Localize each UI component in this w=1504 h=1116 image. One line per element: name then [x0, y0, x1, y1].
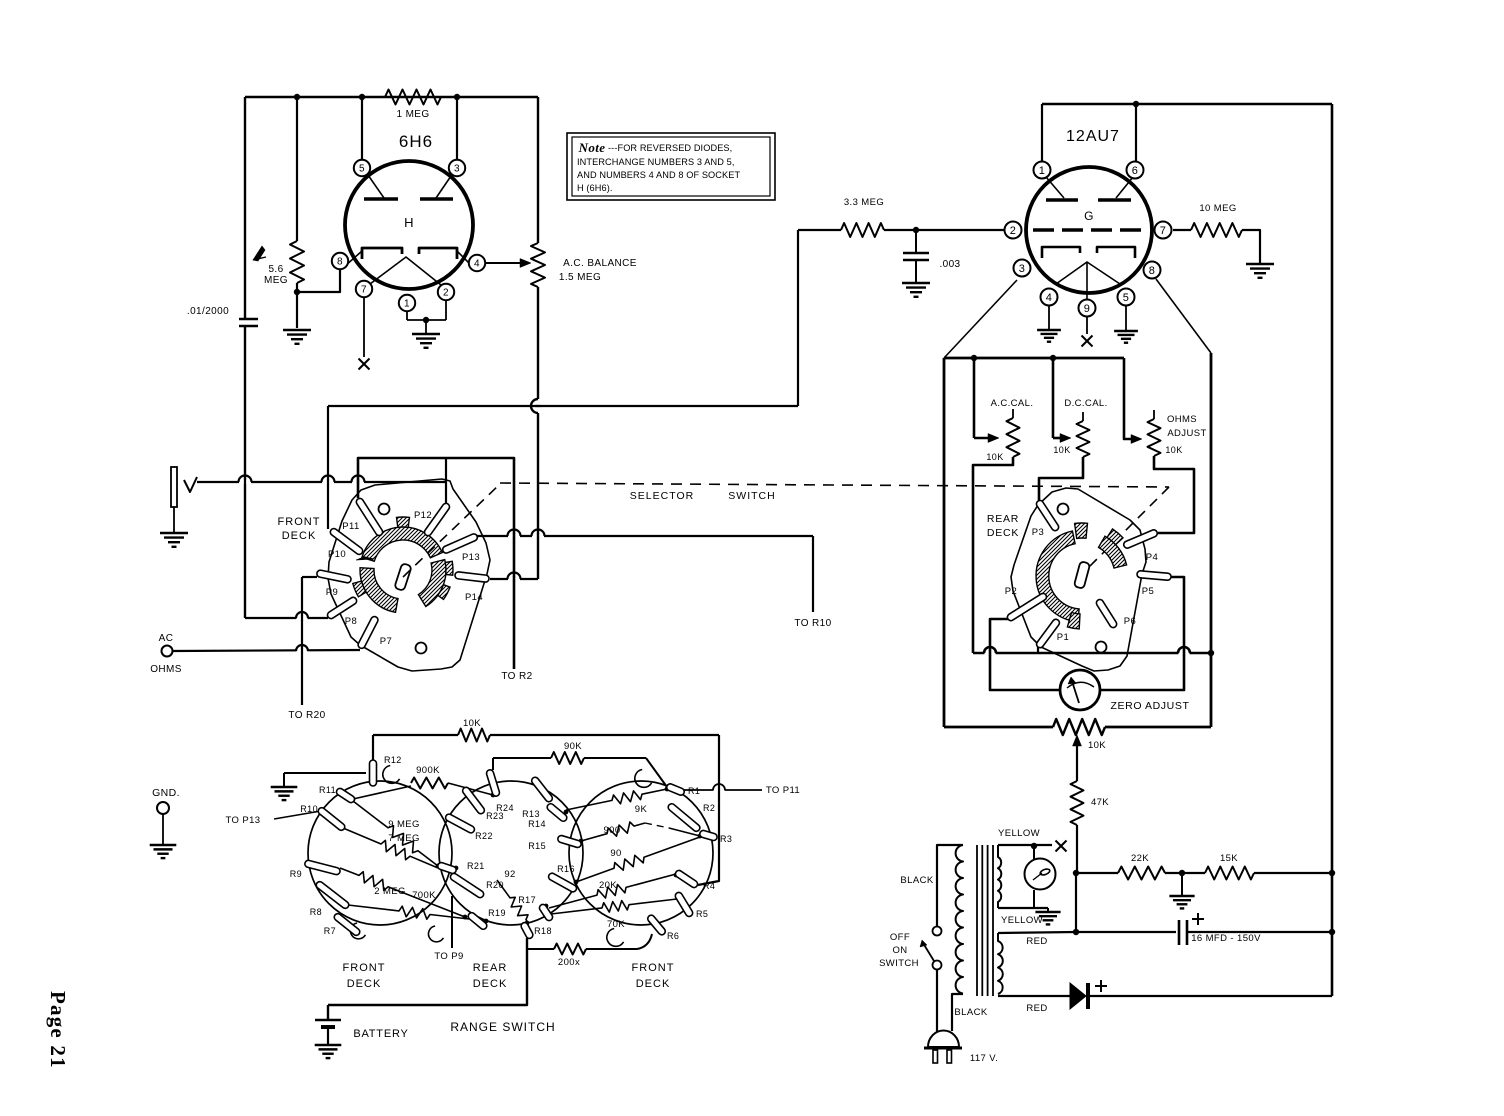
- wire pin5 ground: [1125, 306, 1127, 330]
- terminal V probe: [171, 467, 177, 507]
- pin 5: [354, 160, 370, 176]
- pin 7: [356, 281, 372, 297]
- svg-text:DECK: DECK: [282, 530, 317, 542]
- wire D.C.CAL bottom to P3: [1039, 457, 1083, 500]
- svg-text:4: 4: [1046, 292, 1053, 304]
- front deck hole upper: [379, 504, 390, 515]
- svg-text:DECK: DECK: [987, 527, 1019, 539]
- front deck box wire P11 to TO R2: [358, 458, 514, 669]
- wire V input to P12: [197, 481, 446, 483]
- ground pins 1,2: [412, 333, 440, 335]
- wire P8 left: [245, 617, 328, 619]
- ground heater: [1047, 908, 1049, 911]
- svg-text:P3: P3: [1032, 527, 1044, 538]
- svg-text:GND.: GND.: [152, 787, 180, 799]
- svg-text:R1: R1: [688, 786, 700, 796]
- wire pin6 up: [1135, 104, 1137, 161]
- wiper wire D.C.CAL: [1052, 358, 1055, 438]
- wire P5 to meter right: [1100, 577, 1184, 690]
- svg-text:REAR: REAR: [473, 962, 508, 974]
- resistor 10 MEG: [1173, 229, 1191, 231]
- contact R15: [557, 835, 582, 849]
- pin 6: [1127, 162, 1144, 179]
- contact R5: [674, 891, 694, 918]
- ground battery: [315, 1044, 342, 1046]
- svg-text:92: 92: [504, 869, 515, 880]
- contact R2: [667, 802, 702, 832]
- wire lamp bottom: [1033, 890, 1035, 908]
- potentiometer OHMS ADJUST 10K: [1153, 410, 1155, 419]
- transformer heater winding: [998, 845, 1001, 908]
- svg-text:OFF: OFF: [890, 932, 910, 943]
- contact P1: [1035, 618, 1061, 649]
- svg-text:70K: 70K: [607, 919, 625, 930]
- contact R17: [538, 903, 554, 922]
- pilot lamp: [1033, 846, 1035, 859]
- plug 117V: [928, 1031, 959, 1048]
- svg-text:H: H: [404, 215, 414, 230]
- junction 22K-15K: [1179, 870, 1185, 876]
- ground 10 MEG: [1246, 263, 1274, 265]
- wire pin9 X: [1086, 317, 1088, 334]
- svg-text:R4: R4: [703, 881, 715, 891]
- wire HV bottom RED to diode: [998, 995, 1070, 997]
- svg-text:5: 5: [1123, 292, 1130, 304]
- contact P10: [329, 527, 364, 556]
- svg-text:47K: 47K: [1091, 797, 1109, 808]
- svg-text:2: 2: [1010, 225, 1017, 237]
- pin 8: [332, 253, 348, 269]
- wire 10K pot to 47K: [1076, 780, 1078, 782]
- svg-text:G: G: [1084, 209, 1094, 223]
- svg-text:900: 900: [603, 825, 620, 836]
- contact R12: [370, 760, 377, 786]
- wire P2 to meter left: [990, 619, 1060, 690]
- tube 12AU7 envelope: [1026, 167, 1152, 293]
- tube 6H6 envelope: [345, 161, 473, 289]
- wire pin3 diagonal: [944, 280, 1017, 358]
- svg-text:6H6: 6H6: [399, 132, 433, 151]
- svg-text:R17: R17: [518, 895, 536, 905]
- contact R20: [449, 872, 485, 899]
- clip symbol on left wire: [253, 246, 265, 261]
- svg-text:90K: 90K: [564, 741, 582, 752]
- pin 5: [1118, 289, 1135, 306]
- wire pin5 up: [361, 97, 363, 160]
- svg-text:R12: R12: [384, 755, 402, 765]
- svg-text:10K: 10K: [1053, 445, 1070, 455]
- wire P9 to R20: [302, 576, 317, 578]
- contact P3: [1035, 499, 1060, 532]
- svg-text:REAR: REAR: [987, 513, 1019, 525]
- 12AU7 grid dashed: [1033, 228, 1146, 231]
- contact P11: [355, 497, 384, 537]
- svg-text:8: 8: [1149, 265, 1156, 277]
- svg-text:R6: R6: [667, 931, 679, 941]
- curl marks: [383, 766, 400, 784]
- svg-text:10K: 10K: [1088, 740, 1106, 751]
- contact P5: [1137, 571, 1172, 581]
- junction 47K bottom: [1073, 870, 1079, 876]
- svg-text:DECK: DECK: [347, 978, 382, 990]
- resistor 70K: [551, 899, 677, 914]
- contact R1: [666, 783, 686, 796]
- svg-text:RED: RED: [1026, 1003, 1047, 1014]
- contact P9: [316, 570, 351, 584]
- front deck rotor hatched arc top: [362, 527, 442, 561]
- capacitor 16 MFD - 150V: [1076, 931, 1176, 933]
- svg-text:R20: R20: [486, 880, 504, 890]
- svg-text:1: 1: [404, 299, 410, 310]
- wire TO P9: [451, 896, 453, 948]
- pin 9: [1079, 300, 1096, 317]
- wire P14 to A.C.BAL: [490, 578, 538, 580]
- pin 1: [1034, 162, 1051, 179]
- svg-text:6: 6: [1132, 165, 1139, 177]
- resistor 10K top: [372, 735, 374, 760]
- wire divider vertical: [1075, 873, 1077, 932]
- svg-text:2: 2: [443, 288, 449, 299]
- svg-text:ADJUST: ADJUST: [1167, 428, 1206, 439]
- wiper wire OHMS ADJUST: [1124, 358, 1135, 439]
- range switch left deck circle: [308, 781, 452, 925]
- contact P8: [326, 596, 358, 620]
- resistor 9 MEG: [353, 801, 438, 866]
- svg-text:YELLOW: YELLOW: [998, 828, 1040, 839]
- pin 4: [469, 255, 485, 271]
- wire ground to R12: [284, 772, 366, 774]
- svg-text:SWITCH: SWITCH: [728, 490, 775, 502]
- svg-text:R22: R22: [475, 831, 493, 841]
- 12AU7 cathode brackets: [1042, 247, 1080, 258]
- potentiometer D.C.CAL 10K: [1082, 412, 1084, 421]
- rear deck center slot: [1074, 561, 1090, 589]
- zero adjust pot arrow: [1073, 735, 1082, 746]
- svg-text:P5: P5: [1142, 586, 1154, 597]
- ground range switch top: [283, 773, 285, 786]
- pin 2: [438, 284, 454, 300]
- front deck rotor hatched arc right: [418, 560, 446, 607]
- svg-text:Page 21: Page 21: [46, 991, 70, 1069]
- svg-text:10 MEG: 10 MEG: [1199, 203, 1236, 214]
- wire R18 bottom to battery rail: [328, 938, 527, 1005]
- svg-text:INTERCHANGE NUMBERS 3 AND 5,: INTERCHANGE NUMBERS 3 AND 5,: [577, 157, 734, 167]
- svg-text:R11: R11: [319, 785, 336, 795]
- svg-text:7: 7: [361, 285, 367, 296]
- svg-text:R8: R8: [310, 907, 322, 917]
- contact R4: [674, 869, 699, 889]
- contact R6: [646, 914, 666, 936]
- svg-text:P11: P11: [342, 521, 359, 532]
- svg-text:BLACK: BLACK: [900, 875, 933, 886]
- svg-text:DECK: DECK: [636, 978, 671, 990]
- svg-text:9K: 9K: [635, 804, 648, 815]
- potentiometer A.C. BALANCE 1.5 MEG: [537, 97, 539, 243]
- wiper wire A.C.CAL: [973, 358, 976, 438]
- svg-text:R2: R2: [703, 803, 715, 813]
- svg-text:MEG: MEG: [264, 275, 288, 286]
- svg-text:9 MEG: 9 MEG: [388, 819, 420, 830]
- contact R10: [317, 806, 346, 831]
- contact R13: [530, 776, 553, 803]
- resistor 47K: [1071, 781, 1084, 825]
- selector switch shaft dashed: [403, 484, 500, 577]
- svg-text:R5: R5: [696, 909, 708, 919]
- svg-text:AND NUMBERS 4 AND 8 OF SOCKET: AND NUMBERS 4 AND 8 OF SOCKET: [577, 170, 740, 180]
- svg-text:5.6: 5.6: [268, 264, 283, 275]
- rear deck rotor hatched C: [1036, 531, 1079, 622]
- wire heater top to X: [998, 844, 1052, 846]
- rear box left edge: [943, 358, 946, 727]
- ground pin 4: [1037, 329, 1061, 331]
- wire P1 stub: [1037, 647, 1039, 653]
- svg-text:4: 4: [474, 259, 480, 270]
- svg-text:90: 90: [610, 848, 621, 859]
- front deck rotor hatched arc bottom-left: [360, 568, 398, 613]
- pin 4: [1041, 289, 1058, 306]
- contact P13: [442, 533, 479, 554]
- svg-text:R19: R19: [488, 908, 506, 918]
- wire primary bottom to plug: [952, 994, 963, 1031]
- svg-text:P7: P7: [380, 636, 392, 647]
- svg-text:AC: AC: [159, 633, 174, 644]
- svg-text:RANGE SWITCH: RANGE SWITCH: [450, 1020, 555, 1034]
- pin 8: [1144, 262, 1161, 279]
- junction dots range switch: [351, 797, 356, 802]
- wire pin4 wiper arrow: [485, 262, 526, 264]
- right main bus: [1331, 104, 1334, 996]
- svg-text:3.3 MEG: 3.3 MEG: [844, 197, 884, 208]
- 6H6 cathode: [370, 257, 441, 285]
- 6H6 diode plates lower: [362, 248, 402, 259]
- svg-text:P8: P8: [345, 616, 357, 627]
- 12AU7 heater: [1056, 262, 1120, 284]
- svg-text:2 MEG: 2 MEG: [374, 886, 406, 897]
- svg-text:TO R10: TO R10: [794, 618, 831, 629]
- rear deck rotor hatched piece: [1099, 536, 1127, 568]
- meter ZERO ADJUST: [1060, 670, 1100, 710]
- contact R16: [547, 872, 577, 893]
- contact P4: [1123, 529, 1159, 549]
- svg-text:OHMS: OHMS: [1167, 414, 1197, 425]
- resistor 200K bottom: [527, 948, 554, 950]
- svg-text:P6: P6: [1124, 616, 1136, 627]
- svg-text:10K: 10K: [1165, 445, 1182, 455]
- contact P2: [1006, 592, 1048, 622]
- svg-text:R18: R18: [534, 926, 552, 936]
- svg-text:FRONT: FRONT: [343, 962, 386, 974]
- wire pin8 to 5.6MEG bottom: [297, 270, 340, 292]
- wire 10K right to R4: [698, 735, 719, 885]
- pin 1: [399, 295, 415, 311]
- front deck center slot: [394, 563, 412, 591]
- wire AC OHMS to P7: [173, 650, 360, 651]
- svg-text:900K: 900K: [416, 765, 440, 776]
- wire pin8 diagonal: [1156, 279, 1211, 353]
- svg-text:A.C. BALANCE: A.C. BALANCE: [563, 258, 637, 269]
- wire left vertical from top bus to capacitor: [244, 97, 246, 319]
- svg-text:DECK: DECK: [473, 978, 508, 990]
- ground divider: [1181, 873, 1183, 895]
- ground V probe: [173, 507, 175, 532]
- svg-text:SELECTOR: SELECTOR: [630, 490, 694, 502]
- svg-text:16 MFD - 150V: 16 MFD - 150V: [1191, 933, 1261, 944]
- svg-text:H (6H6).: H (6H6).: [577, 183, 613, 193]
- svg-text:D.C.CAL.: D.C.CAL.: [1064, 398, 1107, 409]
- rear bottom inner rail: [973, 652, 1211, 655]
- diode rectifier: [1070, 983, 1086, 1009]
- svg-text:R13: R13: [522, 809, 540, 819]
- wire P13 to R10: [477, 535, 813, 537]
- svg-text:5: 5: [359, 164, 365, 175]
- pin 3: [449, 160, 465, 176]
- wire pin1 up: [1041, 104, 1043, 161]
- rear box top rail: [944, 357, 1124, 360]
- rear box bottom rail with 10K: [944, 726, 1053, 729]
- svg-text:Note: Note: [578, 140, 606, 155]
- svg-text:10K: 10K: [463, 718, 481, 729]
- svg-text:TO P11: TO P11: [766, 785, 800, 796]
- contact R24: [486, 769, 501, 797]
- front deck hole lower: [416, 643, 427, 654]
- contact R18: [520, 921, 534, 939]
- svg-text:R7: R7: [324, 926, 336, 936]
- svg-text:200x: 200x: [558, 957, 580, 968]
- svg-text:P12: P12: [414, 510, 432, 521]
- svg-text:22K: 22K: [1131, 853, 1149, 864]
- svg-text:TO P13: TO P13: [226, 815, 261, 826]
- svg-text:7: 7: [1160, 225, 1167, 237]
- contact P12: [423, 502, 451, 537]
- resistor 1 MEG: [385, 90, 441, 105]
- wire to 12AU7 grid vertical: [797, 230, 799, 406]
- contact R21: [437, 862, 457, 875]
- wire pin3 up: [456, 97, 458, 160]
- svg-text:BLACK: BLACK: [954, 1007, 987, 1018]
- svg-text:1 MEG: 1 MEG: [396, 109, 429, 120]
- svg-text:R15: R15: [528, 841, 546, 851]
- junction grid node: [913, 227, 919, 233]
- ground pin 5: [1114, 330, 1138, 332]
- resistor 92: [497, 880, 528, 921]
- wire 12AU7 top bus: [1042, 103, 1332, 105]
- svg-text:R14: R14: [528, 819, 546, 829]
- rear deck hole upper: [1058, 504, 1069, 515]
- resistor 22K: [1076, 872, 1118, 874]
- contact R3: [699, 830, 718, 842]
- rear deck hole lower: [1096, 642, 1107, 653]
- svg-text:9: 9: [1084, 303, 1091, 315]
- svg-text:YELLOW: YELLOW: [1001, 915, 1043, 926]
- svg-text:8: 8: [337, 257, 343, 268]
- svg-text:P4: P4: [1146, 552, 1158, 563]
- junction 5.6MEG top: [294, 94, 300, 100]
- contact R19: [467, 911, 488, 930]
- resistor 3.3 MEG: [798, 229, 841, 231]
- svg-text:ZERO ADJUST: ZERO ADJUST: [1111, 700, 1190, 712]
- contact R23: [461, 786, 486, 815]
- battery: [327, 1005, 329, 1020]
- svg-text:20K: 20K: [599, 880, 617, 891]
- svg-text:OHMS: OHMS: [150, 664, 182, 675]
- ground .003: [902, 282, 930, 284]
- contact R8: [315, 880, 350, 910]
- svg-text:R16: R16: [557, 864, 575, 874]
- wire A.C.CAL bottom to rail: [973, 457, 1013, 653]
- 12AU7 plates: [1046, 198, 1078, 202]
- contact P7: [357, 615, 379, 649]
- svg-text:---FOR REVERSED DIODES,: ---FOR REVERSED DIODES,: [608, 143, 732, 153]
- svg-text:BATTERY: BATTERY: [353, 1028, 408, 1040]
- contact R9: [304, 860, 341, 876]
- wire DC path vertical to P10: [327, 406, 329, 529]
- svg-text:1.5 MEG: 1.5 MEG: [559, 272, 601, 283]
- wire pin7 to X: [363, 297, 365, 357]
- front deck plate outline: [328, 479, 490, 671]
- svg-text:P13: P13: [462, 552, 480, 563]
- svg-text:R10: R10: [300, 804, 318, 814]
- svg-text:1: 1: [1039, 165, 1046, 177]
- svg-text:ON: ON: [892, 945, 907, 956]
- rear box right edge: [1210, 353, 1213, 727]
- svg-text:7 MEG: 7 MEG: [388, 833, 420, 844]
- contact P6: [1095, 598, 1118, 629]
- svg-text:.01/2000: .01/2000: [187, 306, 229, 317]
- wire switch to plug: [936, 969, 938, 1032]
- resistor 2 MEG: [340, 868, 465, 917]
- ground GND terminal: [150, 844, 177, 846]
- note box: [567, 133, 775, 200]
- svg-text:.003: .003: [939, 259, 960, 270]
- resistor 20K: [549, 874, 676, 908]
- svg-text:P1: P1: [1057, 632, 1069, 643]
- resistor 900: [581, 822, 645, 841]
- svg-text:RED: RED: [1026, 936, 1047, 947]
- svg-text:P14: P14: [465, 592, 483, 603]
- contact P14: [455, 572, 490, 583]
- wire pin4 ground: [1048, 306, 1050, 329]
- 6H6 diode plates upper: [364, 197, 398, 201]
- transformer core: [976, 845, 978, 996]
- svg-text:12AU7: 12AU7: [1066, 128, 1120, 145]
- resistor 700K: [348, 905, 469, 919]
- contact R14: [546, 802, 568, 822]
- svg-text:10K: 10K: [986, 452, 1003, 462]
- transformer primary winding: [956, 845, 963, 994]
- svg-text:TO R2: TO R2: [501, 671, 532, 682]
- svg-text:A.C.CAL.: A.C.CAL.: [991, 398, 1034, 409]
- pin 2: [1005, 222, 1022, 239]
- switch OFF ON: [933, 927, 942, 936]
- wire pins 1,2 to ground: [406, 311, 408, 320]
- contact R11: [335, 787, 356, 804]
- capacitor C .01/2000: [239, 318, 258, 321]
- resistor 15K: [1205, 867, 1254, 880]
- resistor 90K: [492, 758, 494, 770]
- svg-text:R23: R23: [486, 811, 504, 821]
- wire heater bottom to ground: [998, 907, 1048, 909]
- svg-text:FRONT: FRONT: [632, 962, 675, 974]
- svg-text:FRONT: FRONT: [278, 516, 321, 528]
- pin 7: [1155, 222, 1172, 239]
- resistor 90: [576, 837, 700, 882]
- svg-text:P2: P2: [1005, 586, 1017, 597]
- junction RED node: [1073, 929, 1079, 935]
- wire top bus 6H6: [245, 96, 538, 98]
- svg-text:R9: R9: [290, 869, 302, 879]
- svg-text:R21: R21: [467, 861, 485, 871]
- svg-text:SWITCH: SWITCH: [879, 958, 919, 969]
